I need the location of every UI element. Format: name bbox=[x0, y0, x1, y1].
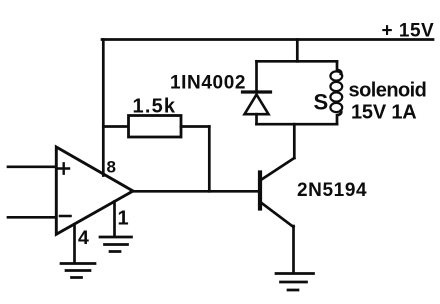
svg-text:1.5k: 1.5k bbox=[133, 96, 177, 118]
svg-text:2N5194: 2N5194 bbox=[297, 180, 367, 201]
diode D1 triangle bbox=[245, 95, 269, 115]
diode D1 cathode bar bbox=[243, 90, 271, 93]
wire collector drop bbox=[293, 124, 296, 158]
op-amp plus input symbol bbox=[59, 163, 70, 173]
wire solenoid bottom lead bbox=[337, 111, 341, 125]
svg-text:solenoid: solenoid bbox=[349, 80, 427, 102]
wire pin 4 to ground bbox=[73, 225, 76, 264]
transistor Q1 collector diagonal bbox=[262, 158, 295, 180]
transistor Q1 emitter diagonal bbox=[262, 203, 294, 227]
svg-text:15V 1A: 15V 1A bbox=[351, 102, 417, 124]
wire noninverting input bbox=[8, 165, 56, 168]
wire snubber box top bbox=[257, 60, 338, 63]
resistor R1 body bbox=[129, 116, 182, 138]
op-amp U1 triangle bbox=[56, 147, 133, 234]
wire emitter to ground bbox=[292, 226, 295, 273]
svg-text:4: 4 bbox=[78, 227, 89, 249]
wire supply drop to pin 8 bbox=[102, 40, 105, 176]
wire diode cathode riser bbox=[255, 61, 258, 90]
wire resistor right lead bbox=[181, 125, 209, 128]
wire solenoid top lead bbox=[337, 61, 341, 74]
wire pin 1 to ground bbox=[113, 202, 116, 237]
wire op-amp output bbox=[131, 190, 258, 193]
ground at pin 4 bbox=[61, 264, 95, 278]
svg-text:+ 15V: + 15V bbox=[382, 21, 435, 42]
svg-text:1IN4002: 1IN4002 bbox=[170, 73, 246, 94]
wire resistor output drop bbox=[208, 127, 211, 192]
wire diode anode lead bbox=[255, 114, 258, 124]
svg-text:S: S bbox=[314, 90, 329, 115]
wire +15V top rail bbox=[102, 38, 433, 41]
svg-text:8: 8 bbox=[107, 158, 116, 177]
wire resistor left lead bbox=[103, 125, 128, 128]
ground at pin 1 bbox=[100, 237, 132, 252]
ground at emitter bbox=[276, 274, 314, 291]
wire snubber box bottom bbox=[257, 123, 338, 126]
svg-text:1: 1 bbox=[118, 208, 129, 230]
solenoid L1 coil bbox=[330, 71, 342, 112]
wire inverting input bbox=[8, 216, 56, 219]
transistor Q1 base bar bbox=[258, 173, 262, 209]
op-amp minus input symbol bbox=[60, 215, 71, 218]
wire supply branch drop to snubber network bbox=[296, 40, 299, 62]
